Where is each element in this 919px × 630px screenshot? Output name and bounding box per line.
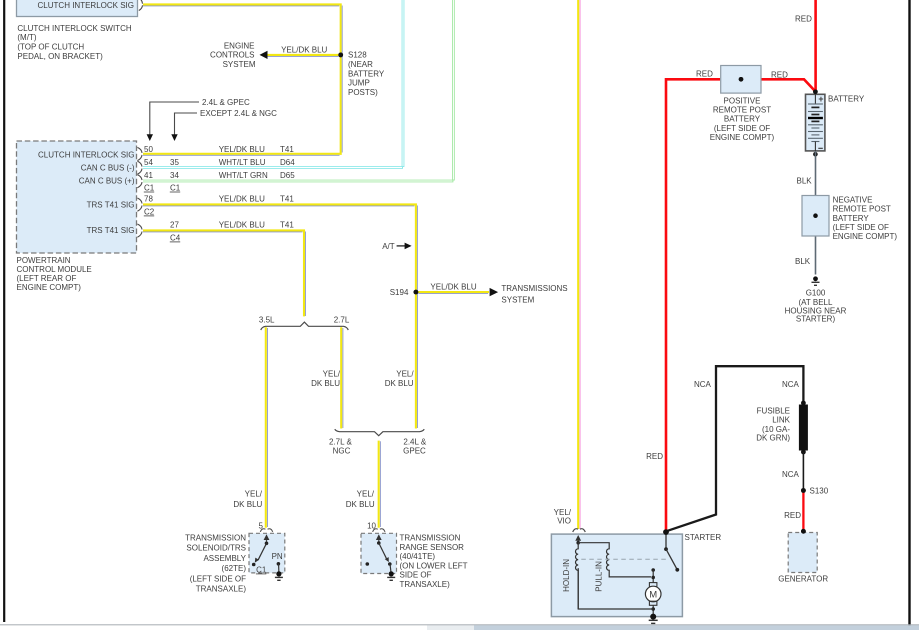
svg-text:ENGINE COMPT): ENGINE COMPT): [17, 283, 82, 292]
svg-text:2.7L: 2.7L: [334, 315, 350, 324]
wire YEL/DK BLU from clutch interlock switch to S128 and PCM pin 50: [143, 4, 342, 155]
svg-text:(TOP OF CLUTCH: (TOP OF CLUTCH: [17, 43, 84, 52]
svg-text:GPEC: GPEC: [403, 447, 426, 456]
wire YEL/DK BLU 2.7L branch to 2.7L&amp;NGC merge: [341, 327, 343, 428]
svg-text:CONTROLS: CONTROLS: [210, 51, 254, 60]
svg-text:RANGE SENSOR: RANGE SENSOR: [400, 543, 465, 552]
svg-text:RED: RED: [784, 511, 801, 520]
svg-text:NCA: NCA: [782, 470, 800, 479]
wire RED S130 to generator: [784, 491, 806, 534]
wire NCA starter to fusible link: [668, 366, 804, 531]
wire label YEL/DK BLU (to solenoid): [233, 490, 262, 509]
svg-text:DK BLU: DK BLU: [346, 500, 375, 509]
splice S194: [390, 288, 419, 297]
negative remote post labels: [833, 196, 898, 242]
svg-text:S194: S194: [390, 288, 409, 297]
svg-text:GENERATOR: GENERATOR: [778, 575, 828, 584]
svg-text:78: 78: [144, 195, 153, 204]
svg-text:D65: D65: [280, 171, 295, 180]
fusible link (10 GA- DK GRN): [756, 401, 808, 455]
starter solenoid switch: [663, 529, 679, 571]
wire WHT/LT GRN CAN C bus (+): [143, 0, 453, 181]
svg-text:M: M: [649, 589, 657, 600]
svg-text:G100: G100: [806, 289, 826, 298]
svg-text:BATTERY: BATTERY: [724, 115, 761, 124]
transmission solenoid/TRS assembly box: [249, 533, 285, 573]
svg-text:TRS T41 SIG: TRS T41 SIG: [87, 226, 135, 235]
svg-text:PEDAL, ON BRACKET): PEDAL, ON BRACKET): [17, 52, 103, 61]
PCM pin 54 connector: [137, 161, 142, 174]
connector symbol at clutch interlock box pin: [139, 0, 143, 11]
wire label YEL/VIO: [554, 508, 572, 526]
PCM pin 27 row labels: [170, 221, 294, 230]
svg-text:YEL/: YEL/: [554, 508, 572, 517]
svg-text:TRANSMISSION: TRANSMISSION: [185, 533, 246, 542]
svg-text:T41: T41: [280, 145, 294, 154]
svg-text:YEL/: YEL/: [357, 490, 375, 499]
svg-text:PULL-IN: PULL-IN: [595, 561, 604, 592]
wire RED battery feed from top: [795, 0, 816, 92]
ground G100: [785, 276, 847, 323]
svg-text:NCA: NCA: [782, 380, 800, 389]
wire label YEL/DK BLU (2.7L branch): [311, 370, 341, 388]
svg-text:CLUTCH INTERLOCK SWITCH: CLUTCH INTERLOCK SWITCH: [17, 24, 131, 33]
svg-text:RED: RED: [795, 15, 812, 24]
generator box: [778, 533, 828, 584]
svg-text:A/T: A/T: [382, 242, 395, 251]
callout arrow EXCEPT 2.4L &amp; NGC to pin 35: [171, 109, 277, 141]
positive remote post battery box: [721, 66, 761, 94]
svg-text:REMOTE POST: REMOTE POST: [713, 105, 771, 114]
splice S130: [801, 487, 829, 496]
splice S130 dot: [801, 488, 806, 493]
svg-text:STARTER): STARTER): [796, 315, 836, 324]
split brace 3.5L / 2.7L: [259, 315, 350, 330]
starter feed junction dot: [663, 529, 669, 535]
wire WHT/LT BLU CAN C bus (-): [143, 0, 403, 168]
svg-text:YEL/: YEL/: [245, 490, 263, 499]
svg-text:ENGINE COMPT): ENGINE COMPT): [833, 232, 898, 241]
solenoid PN contact and ground: [272, 552, 283, 581]
svg-text:DK GRN): DK GRN): [756, 434, 790, 443]
svg-text:SIDE OF: SIDE OF: [400, 571, 432, 580]
svg-text:PN: PN: [272, 552, 283, 561]
wire label YEL/DK BLU (to range sensor): [346, 490, 375, 509]
splice S128: [338, 51, 385, 98]
svg-text:ENGINE COMPT): ENGINE COMPT): [710, 133, 775, 142]
positive remote post dot: [739, 77, 744, 82]
PCM pin 50 row labels: [144, 145, 294, 154]
svg-text:YEL/DK BLU: YEL/DK BLU: [430, 283, 476, 292]
wire YEL/DK BLU S194 to transmissions system: [418, 283, 498, 297]
wire YEL/VIO to starter hold-in: [578, 0, 580, 529]
svg-text:(ON LOWER LEFT: (ON LOWER LEFT: [400, 561, 468, 570]
splice S128 dot: [338, 53, 343, 58]
svg-text:CLUTCH INTERLOCK SIG: CLUTCH INTERLOCK SIG: [38, 1, 134, 10]
connector symbol at range sensor pin 10: [373, 529, 385, 532]
positive remote post labels: [710, 96, 775, 141]
svg-text:FUSIBLE: FUSIBLE: [757, 406, 790, 415]
svg-text:(LEFT SIDE OF: (LEFT SIDE OF: [833, 223, 889, 232]
PCM location label: [17, 256, 92, 292]
svg-text:2.4L &: 2.4L &: [403, 437, 426, 446]
svg-text:D64: D64: [280, 158, 295, 167]
negative remote post battery box: [802, 196, 829, 237]
wire YEL/DK BLU 3.5L branch to transmission solenoid assembly: [266, 327, 268, 528]
solenoid TRS switch: [252, 534, 270, 566]
starter pull-in coil: [578, 543, 651, 592]
svg-text:BLK: BLK: [795, 257, 811, 266]
svg-text:YEL/DK BLU: YEL/DK BLU: [219, 145, 265, 154]
svg-text:35: 35: [170, 158, 179, 167]
svg-text:+: +: [818, 94, 823, 104]
callout arrow 2.4L &amp; GPEC to pin 50: [147, 98, 250, 141]
svg-text:ASSEMBLY: ASSEMBLY: [203, 554, 246, 563]
svg-text:SOLENOID/TRS: SOLENOID/TRS: [186, 544, 246, 553]
svg-text:RED: RED: [646, 452, 663, 461]
svg-text:NCA: NCA: [694, 380, 712, 389]
svg-text:(62TE): (62TE): [222, 564, 247, 573]
PCM pin 27 connector: [137, 224, 142, 237]
engine controls system label: [210, 41, 256, 69]
connector box CLUTCH INTERLOCK SIG (clutch interlock switch): [17, 0, 138, 17]
wire YEL/DK BLU branch S128 to engine controls system: [260, 45, 339, 59]
solenoid connector name C1: [256, 565, 267, 574]
svg-text:YEL/DK BLU: YEL/DK BLU: [281, 45, 327, 54]
svg-text:3.5L: 3.5L: [259, 315, 275, 324]
battery: [806, 90, 865, 157]
svg-text:(LEFT SIDE OF: (LEFT SIDE OF: [190, 574, 246, 583]
svg-text:STARTER: STARTER: [685, 533, 722, 542]
svg-text:RED: RED: [696, 70, 713, 79]
transmission range sensor labels: [400, 534, 468, 590]
svg-text:SYSTEM: SYSTEM: [223, 60, 256, 69]
svg-text:REMOTE POST: REMOTE POST: [833, 205, 891, 214]
svg-text:CAN C BUS (-): CAN C BUS (-): [81, 163, 135, 172]
svg-text:YEL/: YEL/: [323, 370, 341, 379]
transmissions system label: [501, 284, 567, 305]
svg-text:TRANSAXLE): TRANSAXLE): [400, 580, 451, 589]
svg-text:BLK: BLK: [797, 176, 813, 185]
svg-text:BATTERY: BATTERY: [348, 69, 385, 78]
svg-text:TRS T41 SIG: TRS T41 SIG: [87, 201, 135, 210]
starter bottom wire and ground: [578, 568, 658, 623]
svg-text:EXCEPT 2.4L & NGC: EXCEPT 2.4L & NGC: [200, 109, 277, 118]
svg-text:BATTERY: BATTERY: [833, 214, 870, 223]
svg-text:2.4L & GPEC: 2.4L & GPEC: [202, 98, 250, 107]
svg-text:(LEFT REAR OF: (LEFT REAR OF: [17, 274, 77, 283]
svg-text:HOLD-IN: HOLD-IN: [562, 559, 571, 592]
svg-text:CLUTCH INTERLOCK SIG: CLUTCH INTERLOCK SIG: [38, 151, 134, 160]
battery positive junction dot: [813, 90, 818, 95]
PCM pin 54 row labels: [144, 158, 295, 167]
svg-text:POSTS): POSTS): [348, 88, 378, 97]
starter motor M: [645, 568, 661, 616]
svg-text:YEL/: YEL/: [396, 370, 414, 379]
svg-text:2.7L &: 2.7L &: [329, 437, 352, 446]
range sensor ground: [387, 564, 395, 580]
svg-text:C4: C4: [170, 233, 181, 242]
svg-text:(10 GA-: (10 GA-: [762, 425, 790, 434]
svg-text:41: 41: [144, 171, 153, 180]
svg-text:LINK: LINK: [772, 416, 790, 425]
svg-text:BATTERY: BATTERY: [828, 94, 865, 103]
wire RED positive post to battery and starter: [646, 70, 815, 531]
svg-text:DK BLU: DK BLU: [311, 379, 340, 388]
transmission range sensor box: [361, 533, 397, 573]
wire YEL/DK BLU merged to transmission range sensor: [379, 441, 381, 528]
wire YEL/DK BLU TRS T41 sig pin 78 to S194: [143, 204, 417, 292]
svg-text:WHT/LT GRN: WHT/LT GRN: [219, 171, 268, 180]
svg-text:TRANSMISSION: TRANSMISSION: [400, 534, 461, 543]
starter hold-in coil: [562, 535, 581, 609]
svg-text:S128: S128: [348, 51, 367, 60]
svg-text:T41: T41: [280, 221, 294, 230]
starter mechanical dashed link: [581, 558, 666, 560]
svg-text:C1: C1: [144, 183, 155, 192]
svg-text:27: 27: [170, 221, 179, 230]
svg-text:(M/T): (M/T): [17, 33, 36, 42]
A/T callout arrow: [382, 242, 411, 251]
PCM connector name C2: [144, 207, 155, 216]
svg-text:C2: C2: [144, 207, 155, 216]
svg-text:ENGINE: ENGINE: [224, 41, 255, 50]
svg-text:YEL/DK BLU: YEL/DK BLU: [219, 195, 265, 204]
svg-text:(LEFT SIDE OF: (LEFT SIDE OF: [714, 124, 770, 133]
connector symbol at starter terminal: [573, 529, 586, 532]
svg-text:C1: C1: [256, 565, 267, 574]
svg-text:C1: C1: [170, 183, 181, 192]
PCM connector names C1 C1: [144, 183, 181, 192]
connector symbol at solenoid pin 5: [260, 529, 272, 532]
PCM connector name C4: [170, 233, 181, 242]
wire YEL/DK BLU S194 down to merge: [416, 292, 418, 428]
svg-text:T41: T41: [280, 195, 294, 204]
svg-text:RED: RED: [771, 70, 788, 79]
svg-text:VIO: VIO: [557, 517, 571, 526]
starter box: [551, 534, 682, 617]
svg-text:S130: S130: [810, 487, 829, 496]
PCM pin 78 row labels: [144, 195, 294, 204]
svg-text:CONTROL MODULE: CONTROL MODULE: [17, 265, 92, 274]
PCM pin 50 connector: [137, 147, 142, 160]
wire NCA fusible link to S130: [782, 452, 803, 490]
svg-text:34: 34: [170, 171, 179, 180]
svg-text:CAN C BUS (+): CAN C BUS (+): [79, 176, 135, 185]
svg-text:NEGATIVE: NEGATIVE: [833, 196, 873, 205]
svg-text:50: 50: [144, 145, 153, 154]
PCM pin 41 connector: [137, 175, 142, 188]
wire BLK battery to negative remote post: [795, 151, 816, 275]
svg-text:WHT/LT BLU: WHT/LT BLU: [219, 158, 266, 167]
range sensor switch: [366, 534, 392, 566]
svg-text:54: 54: [144, 158, 153, 167]
wire YEL/DK BLU TRS T41 sig pin 27 to 3.5L/2.7L split: [143, 230, 306, 316]
wire label YEL/DK BLU (S194 branch): [385, 370, 415, 388]
PCM pin 78 connector: [137, 198, 142, 211]
svg-text:DK BLU: DK BLU: [233, 500, 262, 509]
clutch interlock switch location label: [17, 24, 131, 61]
svg-text:(40/41TE): (40/41TE): [400, 552, 436, 561]
merge brace 2.7L&amp;NGC / 2.4L&amp;GPEC: [329, 429, 427, 456]
svg-text:NGC: NGC: [333, 447, 351, 456]
svg-text:SYSTEM: SYSTEM: [501, 296, 534, 305]
generator feed dot: [801, 529, 806, 534]
transmission solenoid labels: [185, 533, 247, 593]
svg-text:POSITIVE: POSITIVE: [724, 96, 761, 105]
splice S194 dot: [414, 290, 419, 295]
powertrain control module (PCM) box: [17, 141, 137, 253]
PCM pin 41 row labels: [144, 171, 295, 180]
svg-text:(NEAR: (NEAR: [348, 60, 373, 69]
svg-text:TRANSAXLE): TRANSAXLE): [196, 585, 247, 594]
svg-text:POWERTRAIN: POWERTRAIN: [17, 256, 71, 265]
svg-text:TRANSMISSIONS: TRANSMISSIONS: [501, 284, 567, 293]
svg-text:YEL/DK BLU: YEL/DK BLU: [219, 221, 265, 230]
svg-text:DK BLU: DK BLU: [385, 379, 414, 388]
svg-text:JUMP: JUMP: [348, 79, 370, 88]
